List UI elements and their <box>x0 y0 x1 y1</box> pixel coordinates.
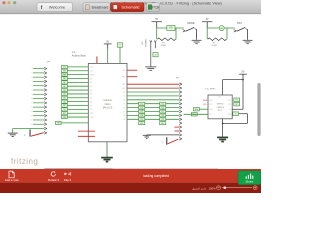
svg-text:Arduino Nano: Arduino Nano <box>72 55 87 58</box>
svg-text:SCL: SCL <box>203 104 207 106</box>
svg-text:SRF02: SRF02 <box>217 104 225 106</box>
net label (U2 right GND) <box>233 112 239 116</box>
wire JP1 pin1 to ground <box>150 48 152 66</box>
connector JP2 pin 5 <box>31 84 47 87</box>
net label (U1 left pin A0) <box>62 77 68 80</box>
svg-text:D7: D7 <box>141 111 143 113</box>
wire 5V to U1 top pin <box>107 49 109 64</box>
svg-text:5V: 5V <box>155 18 158 21</box>
horizontal scrollbar <box>44 168 218 171</box>
net label D6 (right column) <box>160 106 166 109</box>
ground (below JP3) <box>143 135 151 138</box>
net label (U1 left pin A4) <box>62 92 68 95</box>
resistor R2 10k (RST pull-up) <box>208 38 227 47</box>
svg-text:Schematic: Schematic <box>121 5 139 10</box>
pushbutton MODE <box>183 22 197 40</box>
svg-text:A1: A1 <box>221 27 223 30</box>
svg-text:D8: D8 <box>123 115 125 117</box>
svg-text:loading completed: loading completed <box>143 174 169 178</box>
svg-text:D6: D6 <box>162 107 164 109</box>
part label U1 Arduino Nano <box>72 52 87 57</box>
vertical scrollbar thumb <box>257 83 260 136</box>
svg-text:جاري التحميل: جاري التحميل <box>192 186 207 190</box>
net label D5 (left column) <box>139 102 145 105</box>
connector JP3 pin 11 <box>179 122 182 125</box>
wire ground to JP3 pin 14 <box>147 134 182 137</box>
pushbutton RST <box>234 22 248 40</box>
wire JP3 to U2 VCC pin <box>184 113 209 115</box>
add-a-note icon <box>9 171 14 178</box>
svg-text:3V3: 3V3 <box>63 70 66 72</box>
wire red stub to JP3 pin 13 <box>174 130 181 133</box>
wire U1 left pin A5 <box>67 97 88 99</box>
tab PCB <box>147 3 160 12</box>
connector JP2 pin 14 <box>30 123 47 126</box>
svg-text:5V: 5V <box>106 40 109 43</box>
svg-text:13: 13 <box>30 120 32 122</box>
wire U1 left pin 3V3 <box>67 70 88 72</box>
connector JP3 label <box>176 78 180 80</box>
svg-text:100%: 100% <box>208 187 216 191</box>
node A0 net label <box>167 26 175 31</box>
svg-text:TX1: TX1 <box>122 70 125 72</box>
svg-text:D13: D13 <box>63 67 66 69</box>
svg-text:D7: D7 <box>162 111 164 113</box>
resistor R1 10k (MODE pull-up) <box>157 38 175 47</box>
connector JP2 pin 10 <box>30 106 47 109</box>
wire red stub to JP3 pin 12 <box>174 126 181 129</box>
svg-text:D3: D3 <box>123 96 125 98</box>
net label D11 (left column) <box>139 122 145 125</box>
svg-text:5V: 5V <box>236 100 238 102</box>
svg-text:D9: D9 <box>141 119 143 121</box>
svg-text:VCC: VCC <box>219 97 222 99</box>
node A1 net label (circle) <box>219 26 224 31</box>
net label (U2 SDA left) <box>193 108 199 111</box>
svg-text:Welcome: Welcome <box>49 5 65 10</box>
wire U1 left pin A6 <box>67 101 88 103</box>
pin label SDA (red, U2 left) <box>203 99 207 102</box>
svg-text:D8: D8 <box>162 115 164 117</box>
wire 5V down to U2 right pin <box>232 80 243 110</box>
tab Schematic (active) <box>111 3 145 12</box>
wire U2 bottom pin to ground <box>222 119 224 137</box>
svg-text:Nano: Nano <box>105 103 112 106</box>
svg-text:11: 11 <box>30 111 32 113</box>
ground (RST button) <box>243 40 253 43</box>
svg-text:D13: D13 <box>90 67 93 69</box>
svg-text:D2: D2 <box>123 92 125 94</box>
U1 left pin labels <box>90 67 94 119</box>
svg-text:5V: 5V <box>206 18 209 21</box>
wire red stub U1 right RX <box>127 76 137 78</box>
net label (U2 right VCC) <box>234 98 240 102</box>
switch S1 (bottom left) <box>24 129 47 137</box>
svg-text:POWER: POWER <box>146 39 148 47</box>
svg-text:RST: RST <box>237 22 242 25</box>
wire U1 left pin GND <box>67 116 88 118</box>
net label (U1 left pin 3V3) <box>62 69 68 72</box>
wire red stub to U1 top <box>96 56 98 63</box>
zoom in button <box>253 186 257 190</box>
net label (U1 left pin AREF) <box>62 73 68 76</box>
svg-text:RX0: RX0 <box>122 77 125 79</box>
net label D8 (right column) <box>160 114 166 117</box>
svg-text:5V: 5V <box>229 109 231 111</box>
wire 5V to U2 top pin <box>223 80 243 95</box>
net label D6 (left column) <box>139 106 145 109</box>
svg-text:D6: D6 <box>123 107 125 109</box>
connector JP2 pin 1 <box>31 67 47 70</box>
tab Welcome <box>37 3 73 12</box>
net label (U1 left pin VIN) <box>56 121 62 124</box>
svg-text:12: 12 <box>30 115 32 117</box>
wire U1 D8 to JP3 <box>127 114 182 117</box>
net label (U1 left pin 5V) <box>62 108 68 111</box>
svg-text:5V: 5V <box>90 109 92 111</box>
net label D9 (left column) <box>139 118 145 121</box>
svg-text:Share: Share <box>246 180 254 184</box>
net label D8 (left column) <box>139 114 145 117</box>
ground (bottom left) <box>8 133 18 136</box>
title bar <box>0 0 261 14</box>
zoom slider <box>222 186 252 189</box>
ground (U2) <box>217 137 228 141</box>
power symbol 5V (RST circuit) <box>202 18 212 28</box>
zoom out button <box>217 186 221 190</box>
wire 5V net loop (RST) <box>207 28 235 40</box>
net label (U2 SCL left) <box>191 113 197 116</box>
svg-text:I2C-SRF?: I2C-SRF? <box>206 88 217 90</box>
connector JP2 label <box>47 62 51 64</box>
svg-text:14: 14 <box>30 124 32 126</box>
svg-text:D11: D11 <box>140 123 143 125</box>
svg-text:S?: S? <box>161 142 163 144</box>
junction node (5V net) <box>242 79 244 81</box>
wire U1 left pin VIN <box>61 122 88 124</box>
flip icon <box>65 173 71 176</box>
net label D5 (right column) <box>160 102 166 105</box>
part label I2C-SRF <box>206 88 217 90</box>
wire U1 TX to JP3 <box>127 83 182 86</box>
wire 5V net loop (MODE) <box>157 28 184 40</box>
net label (U1 left pin D13) <box>62 65 68 68</box>
connector JP1 POWER label <box>142 39 147 47</box>
svg-text:D6: D6 <box>141 107 143 109</box>
connector JP1 POWER pin 1 <box>150 40 152 48</box>
traffic light close <box>2 1 5 4</box>
wire red stub U1 left GND <box>78 130 95 132</box>
svg-text:SCL: SCL <box>209 104 212 106</box>
wire net label to U1 top pin <box>119 47 121 63</box>
U1 right pin labels <box>122 70 126 121</box>
connector JP2 pin 2 <box>31 72 47 75</box>
svg-text:D5: D5 <box>123 104 125 106</box>
svg-text:S?: S? <box>24 135 26 137</box>
svg-text:10: 10 <box>30 107 32 109</box>
wire red stub U1 right TX <box>127 69 137 71</box>
wire red stub U1 left VIN <box>78 135 95 137</box>
svg-text:Breadboard: Breadboard <box>92 6 109 10</box>
wire U1 left pin A4 <box>67 93 88 95</box>
window background <box>0 0 261 193</box>
bottom toolbar (red) <box>0 169 261 183</box>
pin label SCL (red, U2 left) <box>203 104 207 106</box>
svg-text:RST: RST <box>63 113 66 115</box>
tab Breadboard <box>83 3 110 12</box>
svg-text:RTC: RTC <box>218 110 223 112</box>
svg-text:D4: D4 <box>123 100 125 102</box>
net label D11 (right column) <box>160 122 166 125</box>
net label D7 (left column) <box>139 110 145 113</box>
svg-text:10kΩ: 10kΩ <box>161 45 167 47</box>
wire U1 left pin A0 <box>67 77 88 79</box>
IC U1 Arduino Nano body <box>88 63 127 141</box>
svg-text:D9: D9 <box>123 119 125 121</box>
wire U1 left pin 5V <box>67 108 88 110</box>
IC U2 SRF02 body <box>208 95 232 119</box>
ground (U1 bottom) <box>101 158 113 162</box>
connector JP2 pin 7 <box>31 93 47 96</box>
net label (U2 right SCL) <box>234 102 240 106</box>
svg-text:D11: D11 <box>161 123 164 125</box>
net label (U1 left pin A1) <box>62 81 68 84</box>
svg-text:Add a note: Add a note <box>5 178 19 182</box>
svg-text:10kΩ: 10kΩ <box>211 45 217 47</box>
wire U1 RX to JP3 <box>127 87 182 90</box>
wire U1 D4 <box>127 99 182 102</box>
net label GND on JP1 pin2 <box>153 53 158 57</box>
switch S2 (bottom middle) <box>161 137 182 144</box>
net label (U1 left pin A3) <box>62 88 68 91</box>
svg-text:D8: D8 <box>141 115 143 117</box>
svg-text:3V3: 3V3 <box>90 71 93 73</box>
wire U1 left pin A2 <box>67 85 88 87</box>
power symbol 5V (MODE circuit) <box>152 18 162 28</box>
traffic light zoom <box>13 1 16 4</box>
net label (U1 left pin A2) <box>62 85 68 88</box>
net label D9 (right column) <box>160 118 166 121</box>
connector JP2 pin 6 <box>31 89 47 92</box>
wire U1 D6 to JP3 <box>127 106 182 109</box>
svg-text:D7: D7 <box>123 111 125 113</box>
connector JP2 pin 3 <box>31 76 47 79</box>
net label (U1 left pin A7) <box>62 104 68 107</box>
net label above U1 <box>117 43 122 47</box>
svg-text:D9: D9 <box>162 119 164 121</box>
svg-text:Arduino: Arduino <box>103 99 112 102</box>
svg-text:5V: 5V <box>242 71 245 74</box>
connector JP2 pin 12 <box>30 114 47 117</box>
power symbol 5V (U2) <box>239 71 247 80</box>
connector JP2 pin 9 <box>31 102 47 105</box>
wire U1 D5 to JP3 <box>127 102 182 105</box>
svg-text:RST: RST <box>90 113 93 115</box>
wire U1 D3 <box>127 95 182 98</box>
power symbol 5V (U1 VCC) <box>104 40 112 48</box>
wire U1 D2 <box>127 91 182 94</box>
wire JP2 pin 15 to ground <box>13 127 47 132</box>
share button (green) <box>238 171 261 185</box>
svg-text:D5: D5 <box>141 103 143 105</box>
svg-text:5V: 5V <box>64 109 66 111</box>
wire U1 left pin AREF <box>67 74 88 76</box>
wire U2 GND pin left <box>199 108 208 110</box>
connector JP1 POWER pin 2 <box>154 40 156 48</box>
net label (U1 left pin A6) <box>62 100 68 103</box>
wire U1 left pin D13 <box>67 66 88 68</box>
net label (U1 left pin A5) <box>62 96 68 99</box>
wire U1 D7 to JP3 <box>127 110 182 113</box>
svg-text:Rotate ▾: Rotate ▾ <box>48 178 59 182</box>
wire U1 left pin RST <box>67 112 88 114</box>
wire U1 left pin A1 <box>67 81 88 83</box>
wire U1 left pin A7 <box>67 105 88 107</box>
svg-text:CMPS3: CMPS3 <box>216 107 224 109</box>
connector JP2 pin 11 <box>30 110 46 113</box>
rotate icon <box>51 171 55 176</box>
svg-text:Flip ▾: Flip ▾ <box>64 178 71 182</box>
U2 inside pin labels <box>209 97 232 116</box>
wire U2 right GND loop <box>223 114 248 124</box>
svg-text:VIN: VIN <box>57 123 60 125</box>
svg-text:PCB: PCB <box>152 6 160 10</box>
wire U1 D9 to JP3 <box>127 118 182 121</box>
svg-text:(Rev3.0): (Rev3.0) <box>103 106 113 109</box>
ground (MODE button) <box>192 40 202 43</box>
svg-text:fritzing: fritzing <box>11 157 38 166</box>
status bar (dark red) <box>0 183 261 193</box>
traffic light minimize <box>7 1 10 4</box>
svg-text:SCL: SCL <box>228 104 231 106</box>
svg-text:D5: D5 <box>162 103 164 105</box>
net label (U1 left pin GND) <box>62 115 68 118</box>
junction node (U2 GND net) <box>222 123 224 125</box>
connector JP2 pin 13 <box>30 119 47 122</box>
connector JP2 pin 4 <box>31 80 47 83</box>
wire U1 left pin A3 <box>67 89 88 91</box>
net label D7 (right column) <box>160 110 166 113</box>
wire U1 GND to ground <box>106 142 108 157</box>
net label (U1 left pin RST) <box>62 112 68 115</box>
svg-text:RST: RST <box>122 84 125 86</box>
svg-text:MODE: MODE <box>187 22 195 25</box>
ground (JP1 POWER) <box>145 67 156 70</box>
connector JP2 pin 8 <box>31 97 47 100</box>
